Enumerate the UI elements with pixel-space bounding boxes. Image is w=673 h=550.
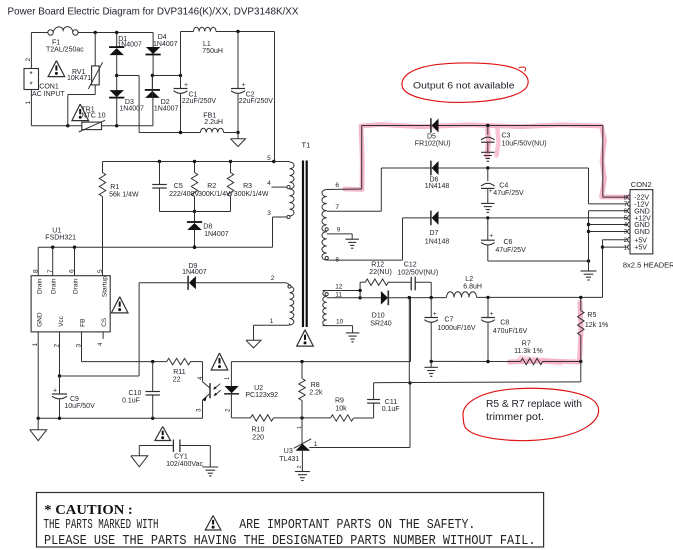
- svg-text:5: 5: [267, 155, 271, 162]
- svg-text:R7: R7: [522, 340, 531, 347]
- svg-text:2.2k: 2.2k: [309, 389, 323, 396]
- svg-text:D5: D5: [427, 134, 436, 141]
- svg-text:AC INPUT: AC INPUT: [32, 91, 65, 98]
- svg-text:1N4007: 1N4007: [154, 105, 179, 112]
- svg-text:8: 8: [335, 256, 339, 263]
- svg-text:1: 1: [270, 318, 274, 325]
- svg-text:R8: R8: [311, 382, 320, 389]
- svg-text:C6: C6: [504, 239, 513, 246]
- svg-text:Vcc: Vcc: [58, 315, 65, 327]
- svg-text:300K/1/4W: 300K/1/4W: [198, 191, 233, 198]
- svg-text:10k: 10k: [335, 406, 347, 413]
- svg-text:R11: R11: [173, 369, 185, 376]
- svg-text:Power Board Electric Diagram f: Power Board Electric Diagram for DVP3146…: [8, 6, 299, 18]
- svg-text:THE PARTS MARKED WITH: THE PARTS MARKED WITH: [44, 518, 159, 533]
- svg-text:T1: T1: [302, 141, 311, 150]
- svg-text:+: +: [53, 388, 57, 395]
- svg-text:C7: C7: [444, 316, 453, 323]
- svg-text:R1: R1: [110, 184, 119, 191]
- svg-text:C11: C11: [385, 399, 397, 406]
- svg-text:4: 4: [624, 222, 628, 229]
- svg-text:2: 2: [271, 275, 275, 282]
- svg-text:R12: R12: [371, 261, 384, 268]
- svg-text:C3: C3: [502, 132, 511, 139]
- svg-text:T2AL/250ac: T2AL/250ac: [46, 46, 84, 53]
- svg-text:47uF/25V: 47uF/25V: [493, 190, 524, 197]
- svg-text:U3: U3: [284, 448, 293, 455]
- svg-text:GND: GND: [634, 229, 650, 236]
- svg-text:2: 2: [53, 344, 60, 348]
- svg-text:R9: R9: [335, 398, 344, 405]
- svg-text:* CAUTION :: * CAUTION :: [44, 502, 133, 517]
- svg-text:1: 1: [32, 343, 39, 347]
- svg-text:2: 2: [297, 465, 303, 468]
- svg-text:47uF/25V: 47uF/25V: [495, 247, 526, 254]
- svg-text:Drain: Drain: [51, 278, 58, 294]
- svg-text:+: +: [490, 311, 494, 318]
- svg-text:12: 12: [335, 284, 343, 291]
- svg-text:+: +: [489, 188, 493, 195]
- svg-text:L1: L1: [203, 41, 211, 48]
- svg-text:8: 8: [32, 269, 39, 273]
- svg-text:10K471: 10K471: [67, 75, 91, 82]
- svg-text:6: 6: [335, 182, 339, 189]
- svg-text:TL431: TL431: [279, 456, 299, 463]
- svg-text:2: 2: [25, 58, 32, 62]
- svg-text:5: 5: [97, 269, 104, 273]
- svg-text:9: 9: [337, 227, 341, 234]
- svg-text:GND: GND: [37, 312, 44, 327]
- svg-text:6.8uH: 6.8uH: [463, 284, 482, 291]
- svg-text:trimmer pot.: trimmer pot.: [486, 412, 544, 423]
- svg-text:1N4007: 1N4007: [182, 269, 207, 276]
- svg-text:Startup: Startup: [102, 276, 109, 297]
- svg-text:1N4007: 1N4007: [119, 105, 144, 112]
- svg-text:CY1: CY1: [174, 454, 188, 461]
- svg-text:D10: D10: [372, 312, 385, 319]
- svg-text:7: 7: [47, 269, 54, 273]
- svg-text:2.2uH: 2.2uH: [204, 119, 223, 126]
- svg-text:102/400Vac: 102/400Vac: [166, 461, 203, 468]
- svg-text:11: 11: [335, 291, 342, 298]
- svg-text:R3: R3: [243, 183, 252, 190]
- svg-text:6: 6: [624, 208, 628, 215]
- svg-text:*: *: [30, 81, 33, 90]
- svg-text:D8: D8: [203, 224, 212, 231]
- svg-text:L2: L2: [465, 276, 473, 283]
- svg-text:C12: C12: [404, 262, 417, 269]
- svg-text:1N4148: 1N4148: [425, 183, 450, 190]
- svg-text:222/400V: 222/400V: [169, 191, 199, 198]
- svg-text:R2: R2: [207, 183, 216, 190]
- svg-text:102/50V(NU): 102/50V(NU): [397, 270, 438, 277]
- svg-text:470uF/16V: 470uF/16V: [493, 328, 528, 335]
- svg-text:R5 & R7 replace with: R5 & R7 replace with: [486, 399, 582, 410]
- svg-text:U2: U2: [254, 385, 263, 392]
- svg-text:750uH: 750uH: [202, 48, 223, 55]
- svg-text:1N4148: 1N4148: [425, 239, 450, 246]
- svg-text:22: 22: [173, 377, 181, 384]
- svg-text:4: 4: [267, 180, 271, 187]
- svg-text:SR240: SR240: [370, 321, 392, 328]
- svg-text:4: 4: [97, 342, 104, 346]
- svg-text:CON1: CON1: [39, 84, 59, 91]
- svg-text:+: +: [242, 82, 246, 89]
- svg-text:3: 3: [267, 210, 271, 217]
- svg-text:C10: C10: [129, 390, 142, 397]
- svg-text:3: 3: [75, 344, 82, 348]
- svg-text:CON2: CON2: [631, 180, 652, 189]
- svg-text:22(NU): 22(NU): [369, 269, 392, 276]
- svg-text:FB: FB: [80, 319, 87, 327]
- svg-text:C5: C5: [174, 183, 183, 190]
- svg-text:1000uF/16V: 1000uF/16V: [437, 325, 475, 332]
- svg-text:1N4007: 1N4007: [117, 42, 142, 49]
- svg-text:CS: CS: [101, 317, 108, 327]
- svg-text:1: 1: [297, 426, 303, 429]
- svg-text:+5V: +5V: [634, 245, 647, 252]
- svg-text:+5V: +5V: [634, 237, 647, 244]
- svg-text:C8: C8: [500, 320, 509, 327]
- svg-text:3: 3: [624, 229, 628, 236]
- svg-text:C4: C4: [499, 182, 508, 189]
- svg-text:2: 2: [624, 237, 628, 244]
- svg-text:Output 6 not available: Output 6 not available: [413, 81, 515, 91]
- svg-text:+: +: [184, 82, 188, 89]
- svg-text:C9: C9: [70, 396, 79, 403]
- svg-text:10uF/50V(NU): 10uF/50V(NU): [502, 140, 547, 147]
- svg-text:PC123x92: PC123x92: [245, 392, 278, 399]
- svg-text:Drain: Drain: [73, 278, 80, 294]
- svg-text:R5: R5: [587, 312, 596, 319]
- svg-text:220: 220: [252, 434, 264, 441]
- svg-text:22uF/250V: 22uF/250V: [239, 98, 274, 105]
- svg-text:GND: GND: [634, 208, 650, 215]
- svg-text:D7: D7: [430, 230, 439, 237]
- svg-text:56k 1/4W: 56k 1/4W: [109, 191, 139, 198]
- svg-text:1: 1: [314, 441, 318, 448]
- svg-text:R10: R10: [252, 427, 265, 434]
- svg-text:GND: GND: [634, 222, 650, 229]
- svg-text:FR102(NU): FR102(NU): [415, 141, 451, 148]
- svg-text:12k 1%: 12k 1%: [585, 322, 608, 329]
- svg-text:10uF/50V: 10uF/50V: [64, 403, 95, 410]
- svg-text:Drain: Drain: [37, 278, 44, 294]
- svg-text:PLEASE USE THE PARTS HAVING TH: PLEASE USE THE PARTS HAVING THE DESIGNAT…: [44, 534, 536, 549]
- svg-text:1N4007: 1N4007: [204, 231, 229, 238]
- svg-text:7: 7: [335, 204, 339, 211]
- svg-text:ARE IMPORTANT PARTS ON THE SAF: ARE IMPORTANT PARTS ON THE SAFETY.: [239, 518, 475, 533]
- svg-text:*: *: [30, 70, 33, 79]
- svg-text:300K/1/4W: 300K/1/4W: [234, 191, 269, 198]
- svg-text:0.1uF: 0.1uF: [382, 406, 400, 413]
- svg-text:+: +: [489, 233, 493, 240]
- svg-text:1: 1: [624, 244, 628, 251]
- svg-text:10: 10: [336, 318, 344, 325]
- svg-text:11.3k 1%: 11.3k 1%: [514, 348, 543, 355]
- svg-text:FSDH321: FSDH321: [45, 234, 76, 241]
- svg-text:8x2.5 HEADER: 8x2.5 HEADER: [623, 260, 673, 269]
- svg-text:1N4007: 1N4007: [153, 41, 178, 48]
- svg-text:22uF/250V: 22uF/250V: [182, 98, 217, 105]
- svg-text:6: 6: [69, 269, 76, 273]
- svg-text:0.1uF: 0.1uF: [122, 397, 140, 404]
- svg-text:+: +: [433, 311, 437, 318]
